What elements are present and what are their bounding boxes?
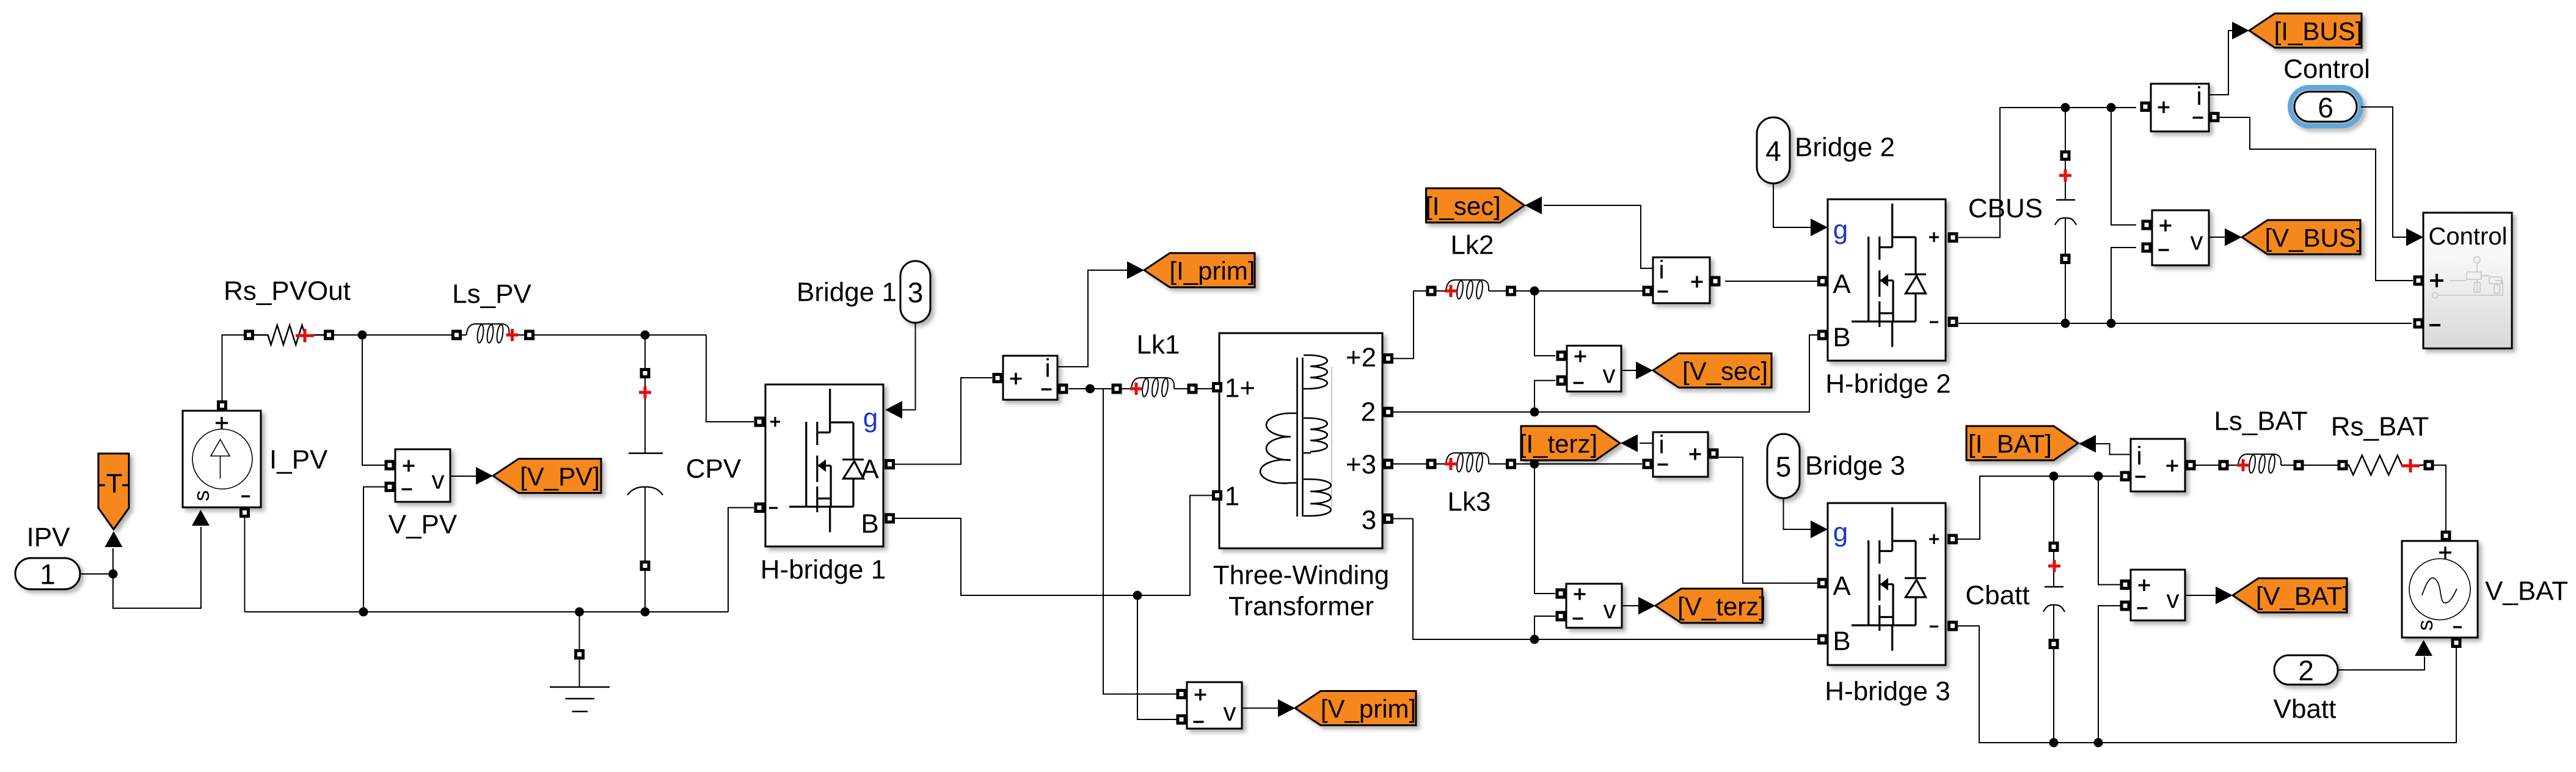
port 1 IPV [15,558,80,590]
svg-text:v: v [432,466,445,494]
inductor Lk1 [1112,330,1198,397]
svg-text:[V_PV]: [V_PV] [520,462,600,491]
current source I_PV [183,400,261,518]
arrowhead into V_BAT s [2415,640,2432,656]
inductor Lk3 [1426,453,1517,517]
wire [1958,476,2120,539]
svg-text:i: i [2136,441,2142,470]
junction [2049,738,2059,748]
svg-text:Control: Control [2429,223,2508,250]
voltage source V_BAT [2402,531,2478,648]
junction [2049,472,2059,481]
wire [362,335,385,465]
svg-text:Transformer: Transformer [1228,592,1374,622]
wire [644,487,646,561]
wire [244,518,246,612]
wire [2338,656,2425,670]
wire [112,548,114,574]
port 5 Bridge 3 [1767,434,1800,498]
svg-text:v: v [1603,360,1616,389]
wire [1393,335,1817,412]
arrowhead V_PV [476,467,493,485]
svg-text:+3: +3 [1346,450,1376,480]
wire [2065,161,2066,200]
junction [1530,460,1539,469]
svg-text:[I_prim]: [I_prim] [1169,257,1255,285]
wire [728,508,754,612]
wire [450,476,476,477]
Control block [2414,213,2512,348]
wire [1516,463,1642,465]
svg-text:i: i [2196,82,2202,111]
wire [644,571,646,612]
arrowhead g H-bridge1 [885,401,902,419]
svg-text:H-bridge 2: H-bridge 2 [1825,369,1950,399]
wire [1784,498,1811,529]
wire [1640,443,1653,444]
svg-text:CBUS: CBUS [1968,194,2043,224]
svg-text:g: g [1833,518,1848,548]
svg-text:1+: 1+ [1225,373,1255,403]
wire [2219,117,2414,281]
wire [222,335,244,400]
capacitor CBUS [2055,108,2076,323]
wire [2209,31,2233,95]
svg-text:A: A [861,455,879,485]
arrowhead g H-bridge2 [1811,219,1828,237]
wire [2065,108,2066,150]
wire [113,527,201,608]
svg-text:B: B [861,509,878,539]
arrowhead V_BUS [2225,229,2242,246]
junction [2107,319,2116,328]
svg-text:Cbatt: Cbatt [1965,581,2029,611]
goto tag [I_BAT] [1966,426,2078,460]
svg-text:3: 3 [908,277,924,309]
wire [1773,183,1811,227]
svg-text:g: g [1833,215,1848,245]
svg-text:Rs_BAT: Rs_BAT [2331,412,2429,442]
junction [1530,408,1539,417]
junction [2094,738,2103,748]
wire [1725,281,1817,282]
svg-text:Lk1: Lk1 [1137,330,1180,360]
capacitor Cbatt [2043,476,2065,743]
wire [2361,107,2406,237]
arrowhead into -T- [105,531,123,547]
wire [2185,595,2216,596]
svg-text:v: v [2191,227,2203,255]
arrowhead into I_PV s [192,510,210,526]
junction [2061,319,2070,328]
svg-text:CPV: CPV [686,454,742,484]
svg-text:V_BAT: V_BAT [2485,576,2568,606]
svg-text:+2: +2 [1346,343,1376,373]
junction [1530,287,1539,296]
wire [1057,270,1127,367]
svg-text:Bridge 2: Bridge 2 [1795,133,1895,163]
junction [575,608,584,617]
capacitor CPV [627,335,663,612]
current sensor I_BUS [2140,82,2220,132]
svg-text:[V_BAT]: [V_BAT] [2256,582,2349,611]
arrowhead g H-bridge3 [1811,521,1828,539]
wire [2096,444,2131,455]
wire [245,611,729,612]
junction at IPV [109,570,118,579]
H-bridge 1 [754,384,896,546]
svg-text:Vbatt: Vbatt [2274,694,2337,724]
junction [641,608,650,617]
svg-text:A: A [1833,270,1851,300]
voltage sensor V_PV [385,449,451,502]
svg-text:g: g [863,403,878,433]
svg-text:i: i [1658,430,1664,459]
arrowhead I_terz [1621,435,1638,452]
wire [1544,205,1653,268]
svg-text:Three-Winding: Three-Winding [1213,561,1390,590]
voltage sensor V_BAT_meas [2120,570,2186,620]
svg-text:s: s [189,490,214,501]
wire [1622,605,1638,606]
goto tag [V_sec] [1653,353,1771,388]
wire [2098,476,2120,585]
svg-text:[V_prim]: [V_prim] [1321,694,1416,723]
wire [363,487,385,612]
wire [1069,388,1112,389]
goto tag [V_PV] [493,459,601,493]
svg-text:Bridge 1: Bridge 1 [797,278,897,307]
junction [2094,472,2103,481]
wire [579,612,580,649]
wire [1958,108,2136,238]
voltage sensor V_sec [1556,346,1622,392]
inductor Ls_PV [451,279,535,344]
port 3 Bridge 1 [900,261,930,323]
arrowhead I_BAT [2079,435,2096,453]
wire [895,378,992,465]
resistor Rs_PVOut [244,325,334,345]
wire [2053,552,2054,587]
wire [1393,463,1426,465]
junction [2107,103,2116,112]
svg-text:5: 5 [1776,451,1792,483]
current sensor I_terz [1643,430,1719,477]
goto tag [I_terz] [1519,426,1620,460]
wire [1242,708,1278,709]
resistor Rs_BAT [2338,455,2434,475]
wire [535,334,706,336]
wire [2053,605,2054,639]
svg-text:[V_sec]: [V_sec] [1682,357,1768,386]
wire [1958,323,2412,324]
wire [1534,291,1555,356]
port 4 Bridge 2 [1757,117,1790,183]
wire [2434,465,2446,531]
wire [1393,291,1426,359]
svg-text:[V_terz]: [V_terz] [1677,592,1766,621]
port 2 Vbatt [2274,655,2338,686]
wire [644,335,646,368]
wire [1958,626,2456,743]
voltage sensor V_BUS [2142,210,2209,265]
wire [706,335,754,422]
wire [2209,237,2225,238]
wire [2065,264,2066,323]
wire [1198,388,1213,389]
wire [2304,465,2338,466]
svg-text:I_PV: I_PV [269,445,328,475]
goto tag [V_BUS] [2242,220,2363,254]
wire [1719,457,1817,583]
svg-text:Control: Control [2283,54,2370,84]
svg-text:A: A [1833,572,1851,601]
svg-text:2: 2 [2298,655,2314,686]
wire [1393,519,1817,640]
svg-text:s: s [2412,620,2437,631]
goto tag [V_terz] [1655,589,1766,623]
goto tag [I_sec] [1425,188,1524,222]
arrowhead Control input [2406,229,2423,246]
junction [359,608,368,617]
svg-text:Ls_BAT: Ls_BAT [2214,406,2307,436]
svg-text:v: v [2167,585,2180,614]
arrowhead I_BUS [2232,22,2249,40]
wire [644,378,646,453]
svg-text:1: 1 [40,559,56,590]
wire [2196,465,2219,466]
svg-text:Bridge 3: Bridge 3 [1805,451,1905,481]
wire [1534,381,1555,413]
svg-text:3: 3 [1362,505,1376,535]
ground [550,612,610,711]
svg-text:i: i [1658,255,1664,284]
wire [1534,464,1555,594]
arrowhead V_sec [1636,362,1653,380]
goto tag [V_prim] [1295,691,1416,726]
wire [1621,370,1636,371]
svg-text:v: v [1604,595,1616,624]
junction [641,331,650,340]
svg-text:Ls_PV: Ls_PV [452,279,531,309]
junction [1530,635,1539,644]
Three-Winding Transformer [1212,333,1393,548]
wire [1103,389,1177,694]
svg-text:IPV: IPV [27,523,71,553]
H-bridge 3 [1817,503,1958,665]
arrowhead I_sec [1525,197,1542,215]
arrowhead I_prim [1127,262,1144,279]
svg-text:4: 4 [1765,135,1781,167]
svg-text:[I_BAT]: [I_BAT] [1968,430,2052,458]
voltage sensor V_prim [1177,682,1242,729]
svg-text:[I_BUS]: [I_BUS] [2274,17,2363,46]
wire [2111,248,2136,323]
junction [358,331,367,340]
wire [2098,606,2120,743]
junction [1133,591,1142,600]
wire [1534,616,1555,639]
wire [2053,649,2054,743]
arrowhead V_BAT [2216,587,2233,605]
junction [2061,103,2070,112]
svg-text:B: B [1833,323,1850,353]
wire [2111,108,2136,225]
current sensor I_sec [1643,255,1721,304]
wire [895,496,1212,596]
svg-text:Lk3: Lk3 [1448,487,1491,517]
svg-text:6: 6 [2318,92,2333,123]
svg-text:Rs_PVOut: Rs_PVOut [224,276,351,306]
current sensor I_prim [993,354,1068,400]
svg-text:i: i [1045,354,1050,383]
wire [902,323,916,410]
wire [80,573,113,575]
current sensor I_BAT [2120,439,2196,491]
inductor Lk2 [1426,230,1517,300]
wire [579,660,580,687]
goto tag [I_prim] [1144,253,1255,287]
svg-text:B: B [1833,627,1850,656]
wire [2065,218,2066,254]
junction [1085,384,1095,394]
wire [2053,476,2054,542]
svg-text:2: 2 [1361,397,1376,427]
svg-text:[V_BUS]: [V_BUS] [2264,224,2363,252]
svg-text:1: 1 [1225,482,1239,512]
svg-text:[I_sec]: [I_sec] [1425,192,1501,221]
svg-text:V_PV: V_PV [389,510,458,540]
arrowhead V_terz [1638,597,1655,615]
wire [334,334,451,336]
svg-text:H-bridge 1: H-bridge 1 [761,555,886,585]
inductor Ls_BAT [2214,406,2307,474]
wire [1516,290,1643,292]
goto tag -T- [97,454,130,529]
svg-text:Lk2: Lk2 [1451,230,1494,260]
voltage sensor V_terz [1556,584,1622,628]
svg-text:[I_terz]: [I_terz] [1519,430,1597,458]
goto tag [V_BAT] [2233,578,2349,612]
wire [1137,595,1177,719]
port 6 Control [2290,87,2361,126]
svg-text:-T-: -T- [97,469,130,499]
H-bridge 2 [1817,199,1958,361]
goto tag [I_BUS] [2249,13,2362,48]
svg-text:v: v [1224,697,1236,726]
arrowhead V_prim [1278,699,1295,717]
svg-text:H-bridge 3: H-bridge 3 [1825,677,1950,707]
